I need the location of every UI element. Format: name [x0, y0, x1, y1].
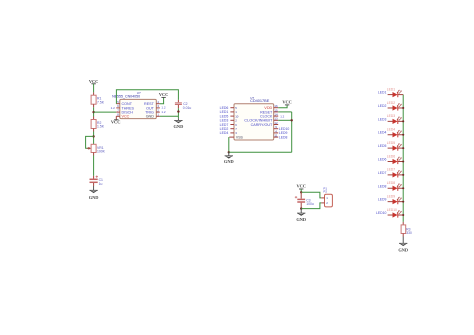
pin 11 stub: [274, 136, 279, 138]
pin name CLOCK: [260, 114, 273, 118]
svg-text:LED10: LED10: [376, 211, 386, 215]
pin 1 stub (Q output): [230, 111, 234, 113]
pin 1 GND stub: [156, 115, 160, 117]
pin 2 stub (Q output): [230, 119, 234, 121]
node C2/GND junction: [177, 110, 179, 112]
label C3 100u: [306, 198, 314, 206]
node supply bottom: [300, 207, 302, 209]
svg-text:VCC: VCC: [282, 100, 292, 105]
svg-text:LED10: LED10: [387, 208, 397, 212]
label C1 1u: [99, 178, 103, 186]
svg-text:100K: 100K: [97, 150, 106, 154]
net label LED9: [279, 131, 288, 135]
ground (4017): [224, 152, 234, 164]
pin name CARRY/OUT: [251, 123, 273, 127]
wire rail to R3: [402, 222, 404, 225]
label LED9 designator: [387, 194, 395, 198]
svg-text:LED9: LED9: [387, 194, 395, 198]
node LED7 junction: [402, 174, 404, 176]
net label LED8: [378, 184, 387, 188]
node R2/VR1 wiper junction: [92, 135, 94, 137]
LED LED3: [388, 116, 404, 124]
pin number 9: [275, 125, 277, 129]
label R2 1.5K: [97, 121, 105, 129]
svg-text:LED2: LED2: [387, 101, 395, 105]
net label LED1: [220, 110, 229, 114]
pin 3 stub (Q output): [230, 132, 234, 134]
label LED2 designator: [387, 101, 395, 105]
pin number 7: [235, 127, 237, 131]
label C2 0.01u: [183, 102, 192, 110]
label P1: [323, 186, 327, 193]
label CD4017BE: [250, 99, 269, 103]
label LED10 designator: [387, 208, 397, 212]
net label LED2: [378, 104, 387, 108]
svg-text:1.2: 1.2: [111, 106, 116, 110]
pin 6 THRES stub: [116, 107, 120, 109]
pin 7 stub (Q output): [230, 128, 234, 130]
net label LED9: [378, 198, 387, 202]
pin 16 stub: [274, 107, 279, 109]
pin 1 stub (P1): [321, 197, 324, 199]
resistor R1: [91, 95, 96, 104]
timer U1 NE555 body: [120, 99, 157, 118]
pin number 14: [274, 113, 278, 117]
LED LED5: [388, 143, 404, 151]
net label 1.2 (OUT): [161, 106, 166, 110]
wire VDD to VCC flag: [278, 105, 287, 108]
pin number 6: [235, 123, 237, 127]
LED LED6: [388, 157, 404, 165]
svg-text:11: 11: [274, 134, 277, 138]
pin name GND: [146, 115, 155, 119]
label LED7 designator: [387, 168, 395, 172]
wire VCC to R1: [93, 84, 95, 95]
svg-text:LED1: LED1: [387, 87, 395, 91]
net label LED6: [220, 106, 229, 110]
net label LED10: [376, 211, 386, 215]
net label LED4: [378, 131, 387, 135]
wire R1 to R2: [93, 104, 95, 119]
svg-text:LED5: LED5: [387, 141, 395, 145]
label VR1 100K: [97, 146, 106, 154]
net label LED2: [220, 127, 229, 131]
pin name RESET: [260, 110, 273, 114]
pin 4 stub: [274, 132, 279, 134]
node LED3 junction: [402, 120, 404, 122]
node VSS/GND junction: [228, 151, 230, 153]
pin 13 stub: [274, 119, 279, 121]
svg-text:LED1: LED1: [378, 91, 387, 95]
node LED5 junction: [402, 147, 404, 149]
wire junction to DISCH pin: [94, 111, 117, 113]
net label LED1: [378, 91, 387, 95]
wire C2 to ground: [177, 108, 179, 118]
svg-text:LED8: LED8: [387, 181, 395, 185]
pin number 11: [274, 134, 277, 138]
wire CONT loop over IC: [116, 90, 178, 104]
label NE555_CN04050: [112, 94, 140, 98]
pin 8 VSS stub: [229, 136, 234, 138]
wire C1 to ground: [93, 183, 95, 190]
svg-text:1.2: 1.2: [161, 110, 166, 114]
pin 6 stub (Q output): [230, 124, 234, 126]
pin name CLOCK/INHIBIT: [244, 119, 273, 123]
node LED10 junction: [402, 214, 404, 216]
net label LED7: [220, 123, 229, 127]
wire wiper loop: [86, 136, 94, 148]
svg-text:LED2: LED2: [378, 104, 387, 108]
node R1/R2/DISCH junction: [92, 111, 94, 113]
svg-text:1.2: 1.2: [280, 114, 284, 118]
svg-text:LED7: LED7: [387, 168, 395, 172]
pin number 10: [235, 114, 239, 118]
net label LED5: [378, 144, 387, 148]
svg-text:CARRY/OUT: CARRY/OUT: [251, 123, 273, 127]
pin 3 OUT stub: [156, 107, 160, 109]
node INHIBIT junction: [291, 119, 293, 121]
connector P1 body: [325, 194, 333, 207]
pin number 3: [235, 131, 237, 135]
power flag VCC (4017): [282, 100, 292, 105]
label U1: [137, 91, 141, 95]
pin 15 stub: [274, 111, 279, 113]
pin number 15: [274, 108, 278, 112]
pin name THRES: [122, 106, 135, 110]
svg-text:GND: GND: [224, 159, 234, 164]
pin numbers U1 left: [117, 100, 119, 117]
pin 5 stub (Q output): [230, 107, 234, 109]
net label LED6: [378, 158, 387, 162]
svg-text:LED4: LED4: [378, 131, 387, 135]
ground (C1): [89, 190, 99, 200]
svg-text:1u: 1u: [99, 182, 103, 186]
svg-text:CD4017BE: CD4017BE: [250, 99, 269, 103]
pin 9 stub: [274, 128, 279, 130]
node supply top: [300, 191, 302, 193]
ground (R3): [398, 243, 408, 252]
pin 10 stub (Q output): [230, 115, 234, 117]
svg-text:GND: GND: [174, 124, 184, 129]
svg-text:VCC: VCC: [159, 92, 169, 97]
pin number 16: [274, 104, 278, 108]
pin numbers P1: [326, 196, 328, 205]
label LED3 designator: [387, 114, 395, 118]
svg-text:GND: GND: [296, 217, 306, 222]
net label LED8: [279, 135, 288, 139]
pin name OUT: [146, 106, 155, 110]
wire R2 to VR1: [93, 129, 95, 145]
svg-text:100u: 100u: [306, 202, 314, 206]
svg-text:7.5K: 7.5K: [97, 100, 105, 104]
svg-text:LED8: LED8: [378, 184, 387, 188]
svg-text:P2: P2: [323, 189, 327, 193]
LED LED7: [388, 170, 404, 178]
svg-text:VCC: VCC: [122, 115, 130, 119]
LED LED4: [388, 130, 404, 138]
label U2: [250, 96, 254, 100]
svg-text:VCC: VCC: [89, 79, 99, 84]
net label LED5: [220, 114, 229, 118]
label LED4 designator: [387, 128, 395, 132]
LED LED1: [388, 90, 404, 98]
potentiometer VR1: [87, 144, 96, 152]
svg-text:LED6: LED6: [387, 154, 395, 158]
capacitor C3 (polarized): [295, 192, 305, 208]
label R1 7.5K: [97, 97, 105, 105]
pin number 1: [235, 110, 237, 114]
wire R3 to ground: [402, 234, 404, 244]
ground (555): [174, 118, 184, 129]
wire VSS down: [228, 137, 230, 152]
svg-text:LED5: LED5: [378, 144, 387, 148]
svg-text:LED8: LED8: [279, 135, 288, 139]
pin 12 stub: [274, 124, 279, 126]
node LED6 junction: [402, 160, 404, 162]
node LED4 junction: [402, 134, 404, 136]
LED LED8: [388, 183, 404, 191]
wire GND pin to rail: [160, 115, 179, 117]
net label LED3: [220, 119, 229, 123]
node LED9 junction: [402, 201, 404, 203]
wire LED cathode rail: [402, 95, 404, 222]
wire INHIBIT to rail: [278, 119, 292, 121]
svg-text:LED4: LED4: [387, 128, 395, 132]
pin 2 stub (P1): [321, 202, 324, 204]
pin number 12: [274, 121, 278, 125]
pin numbers U1 right: [157, 100, 159, 117]
svg-text:LED7: LED7: [378, 171, 387, 175]
resistor R2: [91, 120, 96, 129]
net label LED7: [378, 171, 387, 175]
pin number 5: [235, 106, 237, 110]
svg-text:VCC: VCC: [111, 120, 121, 125]
label LED6 designator: [387, 154, 395, 158]
pin name REST: [144, 102, 155, 106]
pin 4 REST stub: [156, 103, 160, 105]
node LED2 junction: [402, 107, 404, 109]
net label 1.2 (THRES): [111, 106, 116, 110]
svg-text:330: 330: [406, 231, 412, 235]
svg-text:LED9: LED9: [378, 198, 387, 202]
svg-text:VSS: VSS: [236, 135, 244, 139]
resistor R3: [401, 225, 406, 234]
wire REST to VCC flag: [160, 97, 164, 103]
LED LED9: [388, 197, 404, 205]
wire bottom to P1 pin 2: [301, 203, 321, 209]
counter U2 CD4017 body: [234, 104, 274, 140]
wire rail to VSS node: [229, 151, 292, 153]
pin name TRIG: [145, 111, 154, 115]
pin number 2: [235, 119, 237, 123]
pin 2 TRIG stub: [156, 111, 160, 113]
wire top to P1 pin 1: [301, 192, 321, 198]
net label LED4: [220, 131, 229, 135]
pin 8 VCC stub and flag: [111, 116, 121, 124]
net label 1.2 (TRIG): [161, 110, 166, 114]
svg-text:LED3: LED3: [378, 117, 387, 121]
power flag VCC (left rail): [89, 79, 99, 84]
pin 7 DISCH stub: [116, 111, 120, 113]
LED LED10: [388, 210, 404, 218]
svg-text:GND: GND: [146, 115, 155, 119]
LED LED2: [388, 103, 404, 111]
label R3 330: [406, 228, 412, 236]
label LED5 designator: [387, 141, 395, 145]
svg-text:GND: GND: [89, 195, 99, 200]
node LED8 junction: [402, 187, 404, 189]
pin number 4: [275, 129, 277, 133]
svg-text:LED3: LED3: [387, 114, 395, 118]
pin name CONT: [122, 102, 133, 106]
pin name DISCH: [122, 111, 134, 115]
pin name VDD: [264, 106, 272, 110]
wire VCC flag to node: [300, 189, 302, 192]
pin name VSS: [236, 135, 244, 139]
net label 1.2 (CLOCK): [280, 114, 284, 118]
pin name VCC: [122, 115, 130, 119]
net label LED3: [378, 117, 387, 121]
net label LED10: [279, 127, 289, 131]
svg-text:0.01u: 0.01u: [183, 106, 192, 110]
label LED1 designator: [387, 87, 395, 91]
svg-text:LED6: LED6: [378, 158, 387, 162]
svg-text:1.5K: 1.5K: [97, 125, 105, 129]
wire VR1 to C1: [93, 153, 95, 179]
pin 14 stub: [274, 115, 279, 117]
capacitor C2: [175, 100, 182, 108]
wire RESET to rail: [278, 112, 292, 152]
power flag VCC (supply): [296, 184, 306, 189]
pin 5 CONT stub: [116, 103, 120, 105]
svg-text:GND: GND: [398, 247, 408, 252]
svg-text:VCC: VCC: [296, 184, 306, 189]
ground (supply): [296, 209, 306, 222]
pin number 13: [274, 117, 278, 121]
power flag VCC (REST): [159, 92, 169, 97]
capacitor C1 (polarized): [90, 176, 99, 183]
label LED8 designator: [387, 181, 395, 185]
svg-text:LED4: LED4: [220, 131, 229, 135]
